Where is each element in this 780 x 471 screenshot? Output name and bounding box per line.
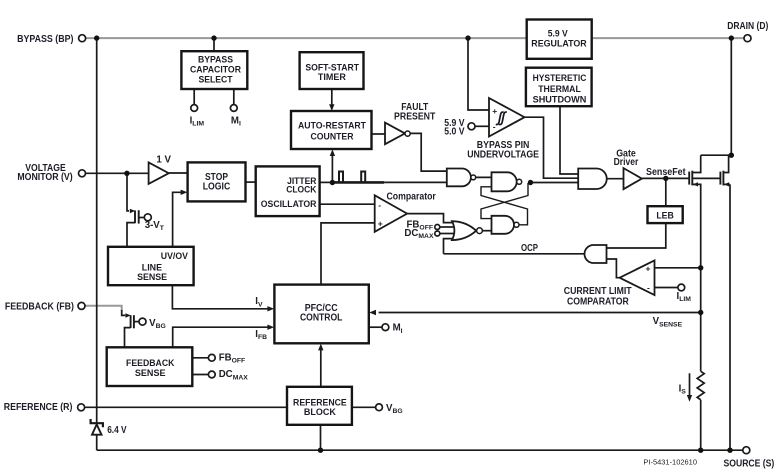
svg-text:BLOCK: BLOCK [304,407,336,418]
svg-text:COUNTER: COUNTER [311,131,354,142]
svg-text:CONTROL: CONTROL [300,313,343,324]
svg-text:OSCILLATOR: OSCILLATOR [261,199,317,210]
svg-text:-: - [647,282,650,292]
svg-text:PI-5431-102610: PI-5431-102610 [643,458,697,467]
svg-text:UV/OV: UV/OV [161,251,189,262]
svg-text:CURRENT LIMIT: CURRENT LIMIT [564,286,632,297]
svg-text:SELECT: SELECT [198,75,232,86]
svg-text:LOGIC: LOGIC [203,181,231,192]
svg-text:FEEDBACK (FB): FEEDBACK (FB) [5,302,74,313]
svg-text:PRESENT: PRESENT [394,112,435,123]
svg-text:LEB: LEB [656,211,674,221]
svg-text:CLOCK: CLOCK [286,185,316,196]
svg-text:6.4 V: 6.4 V [107,425,127,436]
svg-text:OCP: OCP [521,243,538,254]
svg-text:1 V: 1 V [156,154,171,165]
svg-text:-: - [493,122,496,132]
svg-text:+: + [378,218,383,228]
svg-text:SenseFet: SenseFet [646,167,686,178]
svg-text:SENSE: SENSE [137,272,167,283]
svg-text:5.0 V: 5.0 V [444,126,465,137]
svg-text:SOURCE (S): SOURCE (S) [724,459,775,470]
svg-text:+: + [646,263,651,273]
svg-text:AUTO-RESTART: AUTO-RESTART [298,121,366,132]
svg-text:TIMER: TIMER [318,72,346,83]
svg-text:Comparator: Comparator [387,191,437,202]
svg-text:-: - [378,200,381,210]
svg-text:UNDERVOLTAGE: UNDERVOLTAGE [467,149,539,160]
svg-text:SENSE: SENSE [135,368,166,379]
svg-text:DRAIN (D): DRAIN (D) [727,21,768,32]
svg-text:HYSTERETIC: HYSTERETIC [533,72,587,83]
svg-text:MONITOR (V): MONITOR (V) [17,172,72,183]
svg-text:REGULATOR: REGULATOR [531,38,587,49]
svg-text:BYPASS (BP): BYPASS (BP) [17,34,73,45]
svg-text:SHUTDOWN: SHUTDOWN [533,94,587,105]
svg-text:COMPARATOR: COMPARATOR [567,297,629,308]
svg-text:+: + [492,106,497,116]
svg-text:Driver: Driver [614,157,639,168]
svg-text:REFERENCE (R): REFERENCE (R) [4,402,73,413]
